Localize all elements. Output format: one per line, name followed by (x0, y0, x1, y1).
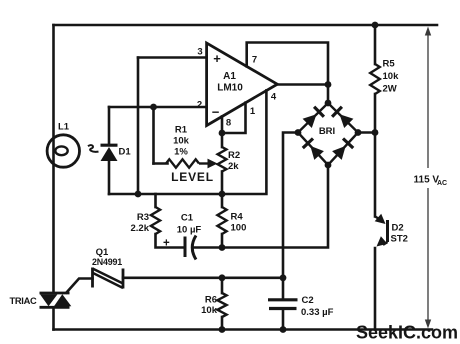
svg-text:R1: R1 (175, 125, 188, 136)
svg-text:R2: R2 (228, 150, 240, 161)
potentiometer R2 (218, 147, 241, 172)
wire ground rail to pin 4 (109, 90, 266, 194)
svg-text:LM10: LM10 (217, 83, 243, 94)
svg-text:+: + (163, 238, 170, 250)
bridge diode lower-left (310, 146, 324, 160)
svg-text:115 V: 115 V (414, 174, 440, 185)
svg-text:1: 1 (250, 106, 256, 117)
junction R2 bottom / ground rail (219, 191, 226, 198)
junction pin3 column / ground rail (135, 191, 142, 198)
junction R6 top / Q1 row (219, 274, 226, 281)
svg-text:2.2k: 2.2k (131, 223, 150, 234)
svg-text:C1: C1 (181, 213, 194, 224)
svg-text:3: 3 (197, 47, 202, 58)
junction bridge bottom corner (325, 162, 332, 169)
svg-text:D2: D2 (392, 223, 404, 234)
svg-text:A1: A1 (223, 71, 236, 82)
svg-text:C2: C2 (302, 295, 314, 306)
wire R3 top lead (154, 194, 157, 207)
wire op-amp output row (277, 83, 328, 86)
svg-text:7: 7 (252, 55, 257, 66)
photodiode D1 (88, 145, 131, 161)
svg-text:R4: R4 (231, 212, 244, 223)
svg-text:10k: 10k (201, 305, 218, 316)
trigger Q1 2N4991 (92, 247, 123, 289)
svg-text:R6: R6 (205, 295, 217, 306)
wire R2 bottom lead (221, 172, 224, 195)
junction R6 bottom / bottom rail (219, 326, 226, 333)
wire R2 top lead (221, 133, 224, 147)
wire R5 top lead (374, 25, 377, 64)
svg-text:LEVEL: LEVEL (171, 170, 214, 184)
wire op-amp pin 2 input row (109, 106, 207, 109)
wire D2 top lead (374, 133, 377, 217)
svg-text:L1: L1 (58, 122, 70, 133)
svg-text:0.33 µF: 0.33 µF (301, 307, 334, 318)
svg-text:10k: 10k (173, 136, 190, 147)
junction R5 top / AC rail (372, 22, 379, 29)
svg-text:+: + (213, 51, 221, 66)
bridge diode upper-right (340, 114, 354, 128)
svg-text:10 µF: 10 µF (177, 225, 202, 236)
svg-text:−: − (212, 105, 220, 120)
trigger diode D2 ST2 (375, 214, 408, 247)
wire C2 top lead (282, 278, 285, 300)
wire R6 top lead (221, 278, 224, 294)
wire D1 top lead (108, 107, 111, 145)
wire R4 bottom lead (221, 234, 224, 248)
wire op-amp pin 3 input row (138, 56, 207, 59)
svg-text:2W: 2W (383, 84, 397, 95)
wire R3 bottom lead to C1 (156, 234, 186, 248)
svg-text:R5: R5 (383, 59, 396, 70)
wire pin 3 column to ground rail (137, 58, 140, 195)
junction op-amp output node (325, 81, 332, 88)
svg-text:BRI: BRI (319, 126, 335, 137)
svg-text:D1: D1 (119, 147, 132, 158)
junction R4 bottom / C1 (219, 244, 226, 251)
junction bridge top corner (325, 100, 332, 107)
wire C2 bottom lead (282, 309, 285, 330)
junction bridge left corner (295, 129, 302, 136)
wire D2 bottom lead (374, 248, 377, 330)
wire R1 left lead (154, 162, 168, 165)
junction bridge right / R5 / D2 (372, 129, 379, 136)
wire output node to bridge top (327, 85, 330, 104)
resistor R5 (370, 59, 399, 95)
wire R1 branch column (152, 107, 155, 164)
svg-text:R3: R3 (137, 212, 149, 223)
svg-text:SeekIC.com: SeekIC.com (356, 323, 458, 343)
junction C2 bottom / bottom rail (280, 326, 287, 333)
wire R6 bottom lead (221, 317, 224, 330)
wire bridge right to R5 column (358, 131, 375, 134)
resistor R3 (131, 207, 161, 234)
wire D1 bottom lead (108, 161, 111, 195)
junction bridge right corner (355, 129, 362, 136)
svg-text:100: 100 (231, 223, 247, 234)
junction C2 top / Q1 row (280, 274, 287, 281)
junction pins 1-8 / R2 top (219, 130, 226, 137)
svg-text:2k: 2k (228, 161, 239, 172)
svg-text:2: 2 (197, 100, 202, 111)
wire pin 8 to node (221, 117, 224, 134)
lamp L1 (47, 122, 79, 168)
op-amp A1 LM10 (197, 43, 277, 129)
resistor R6 (201, 293, 226, 317)
resistor R1 (166, 125, 218, 169)
triac (10, 293, 72, 307)
wire C1 to bridge bottom (194, 165, 329, 248)
capacitor C2 (268, 295, 334, 318)
bridge diode upper-left (303, 114, 317, 128)
wire Q1 output row (123, 276, 283, 279)
resistor R4 (217, 207, 246, 234)
115 VAC supply indicator (414, 27, 448, 329)
svg-text:1%: 1% (174, 147, 188, 158)
wire feedback pin 7 loop (247, 43, 328, 85)
bridge diode lower-right (332, 146, 346, 160)
wire left column through lamp to triac (52, 25, 55, 292)
svg-text:ST2: ST2 (391, 234, 408, 245)
wire bridge left to branch column (283, 133, 298, 278)
wire triac gate to Q1 (67, 279, 93, 293)
svg-text:2N4991: 2N4991 (92, 257, 122, 267)
bridge rectifier BRI (298, 103, 358, 165)
junction pin2 / R1 branch (150, 104, 157, 111)
wire bottom rail (54, 328, 433, 331)
wire R4 top lead (221, 194, 224, 207)
svg-text:8: 8 (226, 118, 231, 129)
capacitor C1 (163, 213, 201, 260)
svg-text:4: 4 (271, 92, 277, 103)
svg-text:10k: 10k (383, 71, 400, 82)
svg-text:TRIAC: TRIAC (10, 296, 37, 306)
wire pin 1 to node (222, 103, 246, 133)
wire triac to bottom rail (52, 309, 55, 330)
wire top AC rail (54, 24, 438, 27)
wire R5 bottom lead (374, 94, 377, 133)
svg-text:AC: AC (437, 180, 447, 187)
